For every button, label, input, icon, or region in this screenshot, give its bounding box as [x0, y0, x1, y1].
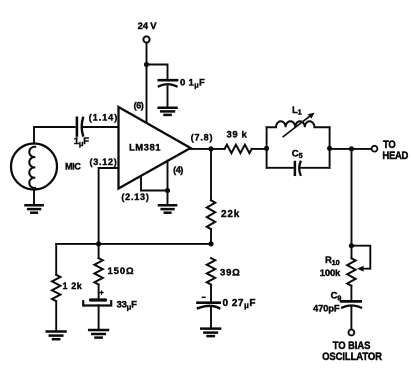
- wire MIC to ground: [33, 190, 35, 205]
- ground (bypass cap): [159, 108, 177, 115]
- wire 24V down to pin 6: [146, 43, 148, 123]
- resistor 39ohm: [207, 258, 215, 284]
- svg-text:HEAD: HEAD: [382, 150, 408, 162]
- svg-text:TO: TO: [383, 139, 396, 151]
- wire R10 to C9: [350, 286, 352, 302]
- wire MIC to coupling cap: [34, 127, 75, 144]
- bus wire: [56, 243, 211, 245]
- tank circuit left rail: [266, 127, 268, 168]
- node tank left: [264, 146, 269, 151]
- capacitor 0.27uF tick: [202, 296, 205, 298]
- ground (1.2k): [47, 332, 66, 340]
- svg-text:39Ω: 39Ω: [220, 268, 241, 279]
- wire cap to pin 1,14: [83, 126, 118, 128]
- resistor 150ohm: [94, 258, 102, 284]
- capacitor 0.1uF: [159, 79, 177, 82]
- 24V terminal: [143, 36, 149, 42]
- svg-text:0 1μF: 0 1μF: [180, 77, 205, 89]
- svg-text:(4): (4): [173, 165, 183, 175]
- resistor R10 100k: [347, 258, 355, 286]
- wire bus to 150ohm: [98, 244, 100, 258]
- wire cap to ground: [167, 87, 169, 107]
- svg-text:0 27μF: 0 27μF: [223, 298, 256, 310]
- ground (pins 2,13,4): [159, 205, 176, 213]
- capacitor C9 470pF: [341, 300, 361, 303]
- microphone MIC: [11, 144, 57, 190]
- wire pin 3,12 to bus: [99, 168, 119, 244]
- capacitor C5: [267, 167, 293, 169]
- ground (0.27uF): [201, 329, 220, 337]
- capacitor 33uF plus sign: [100, 291, 103, 294]
- svg-text:(6): (6): [134, 101, 144, 111]
- svg-text:LM381: LM381: [129, 143, 161, 154]
- L1 variable arrow: [283, 115, 311, 136]
- capacitor 33uF: [91, 298, 106, 301]
- wire output to 39k: [191, 148, 225, 150]
- wire C9 to bias terminal: [350, 307, 352, 329]
- svg-text:(7.8): (7.8): [191, 132, 214, 142]
- terminal TO HEAD: [372, 146, 378, 152]
- svg-text:L1: L1: [292, 105, 302, 117]
- node bus-39: [208, 241, 213, 246]
- wire node to ground: [167, 191, 169, 205]
- svg-text:(1.14): (1.14): [89, 113, 119, 123]
- svg-text:470pF: 470pF: [313, 303, 340, 314]
- node to R10: [349, 146, 354, 151]
- resistor 1.2k: [55, 244, 57, 275]
- node tank right: [327, 146, 332, 151]
- op-amp U1 LM381: [119, 107, 191, 189]
- svg-text:39 k: 39 k: [227, 130, 248, 141]
- R10 wiper loop: [351, 246, 370, 269]
- resistor 22k: [210, 149, 212, 200]
- wire pin 2,13 to ground node: [141, 178, 168, 191]
- inductor L1: [267, 121, 330, 127]
- wire junction to bypass cap: [147, 65, 168, 79]
- node bus-150: [96, 241, 101, 246]
- node R10 top: [349, 243, 354, 248]
- svg-text:24 V: 24 V: [138, 21, 158, 32]
- terminal TO BIAS OSCILLATOR: [349, 330, 355, 336]
- label TO HEAD: [383, 139, 396, 151]
- wire down to R10: [351, 149, 353, 258]
- svg-text:(2.13): (2.13): [121, 192, 149, 202]
- tank circuit right rail: [329, 127, 331, 168]
- wire pin 4 to ground node: [167, 161, 169, 191]
- wire 22k to bus: [210, 229, 212, 244]
- svg-text:100k: 100k: [320, 268, 341, 279]
- svg-text:C5: C5: [292, 149, 303, 161]
- ground (33uF): [89, 330, 108, 338]
- ground (MIC): [26, 205, 43, 213]
- svg-text:MIC: MIC: [65, 162, 81, 172]
- svg-text:150Ω: 150Ω: [108, 266, 135, 277]
- wire 39k to tank: [252, 148, 267, 150]
- wire tank to head terminal: [330, 148, 372, 150]
- svg-text:(3.12): (3.12): [89, 157, 117, 167]
- label OSCILLATOR: [322, 351, 382, 363]
- svg-text:22k: 22k: [221, 209, 240, 220]
- label TO BIAS: [333, 340, 371, 352]
- capacitor 0.27uF: [198, 301, 220, 304]
- svg-text:TO BIAS: TO BIAS: [333, 340, 371, 352]
- capacitor 1uF: [76, 118, 79, 136]
- svg-text:1 2k: 1 2k: [63, 281, 83, 291]
- resistor 39k: [225, 145, 252, 153]
- node pins 2,13,4: [165, 188, 170, 193]
- svg-text:OSCILLATOR: OSCILLATOR: [322, 351, 382, 363]
- node supply junction: [144, 62, 149, 67]
- node output: [208, 146, 213, 151]
